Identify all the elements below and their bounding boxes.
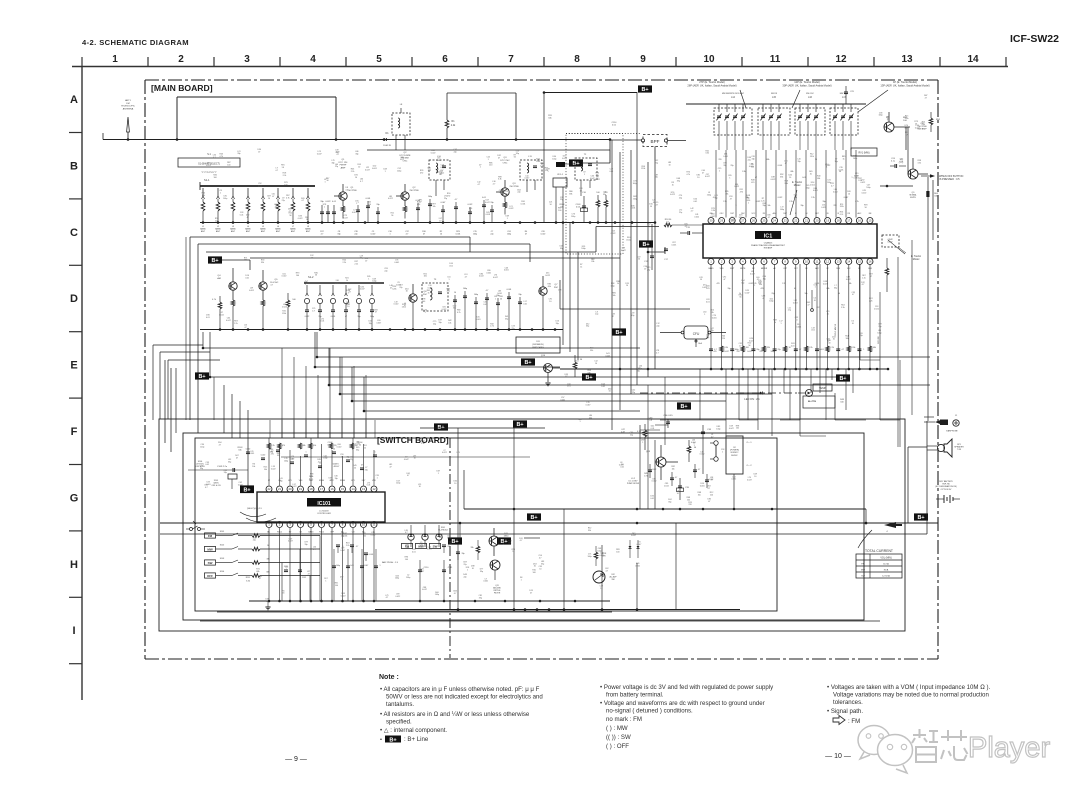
svg-text:22p: 22p: [632, 392, 635, 394]
svg-text:33p: 33p: [462, 553, 465, 555]
svg-text:2.2k: 2.2k: [342, 262, 346, 264]
svg-text:1: 1: [377, 477, 378, 479]
B+ box (left low): [240, 485, 254, 492]
wire antenna feed: [103, 139, 336, 141]
svg-text:0.047: 0.047: [422, 589, 427, 591]
svg-text:1: 1: [324, 206, 325, 208]
svg-text:1k: 1k: [306, 219, 308, 221]
svg-text:0.047: 0.047: [724, 351, 729, 353]
svg-text:22p: 22p: [354, 234, 357, 236]
svg-text:47: 47: [329, 480, 331, 482]
svg-text:47: 47: [656, 205, 658, 207]
svg-text:100p: 100p: [739, 217, 743, 219]
svg-text:68k: 68k: [767, 159, 770, 161]
svg-text:BAC PUSH : 1.5: BAC PUSH : 1.5: [382, 561, 399, 564]
svg-text:23: 23: [784, 219, 788, 223]
svg-text:4.7: 4.7: [356, 546, 359, 548]
svg-text:0.047: 0.047: [485, 202, 490, 204]
svg-text:10k: 10k: [238, 450, 241, 452]
transistor Q11: [489, 536, 499, 546]
misc top right caps: [844, 91, 848, 93]
svg-text:1: 1: [286, 569, 287, 571]
resistor pair R8 R9: [596, 200, 600, 207]
svg-text:MW: MW: [207, 547, 212, 551]
svg-text:15: 15: [858, 260, 862, 264]
svg-text:IN: IN: [805, 213, 807, 215]
svg-text:33p: 33p: [369, 323, 372, 325]
svg-text:0.001: 0.001: [839, 170, 844, 172]
resistor R15: [218, 302, 222, 309]
svg-text:0.022: 0.022: [327, 445, 333, 447]
svg-text:22p: 22p: [706, 337, 709, 339]
svg-text:• Voltages are taken with a VO: • Voltages are taken with a VOM ( Input …: [827, 684, 990, 691]
svg-text:T3: T3: [434, 279, 437, 281]
svg-text:2.2k: 2.2k: [809, 347, 812, 349]
svg-text:100: 100: [368, 204, 371, 206]
band select switches S101-S104: [205, 533, 216, 538]
svg-text:R111: R111: [246, 577, 251, 579]
svg-text:56: 56: [289, 215, 291, 217]
svg-text:10: 10: [580, 190, 582, 192]
svg-text:0.01: 0.01: [905, 127, 909, 129]
B+ box (sw top2): [513, 420, 527, 427]
svg-text:R52: R52: [936, 119, 941, 121]
svg-text:0.047: 0.047: [631, 535, 636, 537]
svg-text:L11: L11: [528, 156, 532, 158]
svg-text:FM/T: FM/T: [730, 268, 735, 270]
FM bus junction dots: [321, 221, 324, 224]
svg-text:1: 1: [112, 54, 118, 65]
svg-text:4.7: 4.7: [386, 597, 389, 599]
svg-text:0.047: 0.047: [705, 176, 710, 178]
svg-text:SW: SW: [611, 579, 614, 581]
svg-text:no mark : FM: no mark : FM: [606, 716, 642, 723]
svg-text:(( )) : SW: (( )) : SW: [606, 734, 631, 741]
MW osc coil T2: [575, 158, 597, 180]
svg-text:100: 100: [227, 164, 230, 166]
IC101 bottom pin wires: [268, 528, 270, 601]
svg-text:9: 9: [640, 54, 646, 65]
svg-text:1: 1: [704, 314, 705, 316]
svg-text:0.001: 0.001: [672, 244, 677, 246]
svg-text:4.7: 4.7: [465, 277, 468, 279]
resistor group above IC101: [267, 443, 271, 449]
electrolytic C39: [679, 478, 681, 500]
svg-text:33p: 33p: [762, 205, 765, 207]
svg-text:F: F: [71, 426, 78, 438]
svg-text:Q2: Q2: [404, 152, 408, 154]
svg-text:33p: 33p: [438, 322, 441, 324]
svg-text:0.001: 0.001: [507, 289, 512, 291]
svg-text:0.01: 0.01: [609, 171, 613, 173]
svg-text:47: 47: [365, 260, 367, 262]
svg-text:2.2k: 2.2k: [789, 201, 792, 203]
bus below switch board: [217, 611, 612, 613]
svg-text:0.001: 0.001: [635, 565, 640, 567]
svg-text:33p: 33p: [480, 571, 483, 573]
svg-text:100p: 100p: [370, 316, 374, 318]
svg-text:33p: 33p: [714, 198, 717, 200]
svg-text:7: 7: [774, 260, 776, 264]
svg-text:10: 10: [406, 291, 408, 293]
svg-text:33p: 33p: [797, 161, 800, 163]
svg-text:47: 47: [525, 234, 527, 236]
svg-text:100p: 100p: [866, 187, 870, 189]
svg-text:1: 1: [521, 579, 522, 581]
svg-text:B+: B+: [451, 539, 458, 545]
svg-text:2.2k: 2.2k: [830, 347, 833, 349]
svg-text:4.7: 4.7: [831, 186, 834, 188]
svg-text:3: 3: [244, 54, 250, 65]
svg-text:56: 56: [514, 157, 516, 159]
svg-text:33p: 33p: [637, 370, 640, 372]
svg-text:47: 47: [258, 152, 260, 154]
svg-text:4.7: 4.7: [486, 290, 489, 292]
svg-text:0.01: 0.01: [523, 304, 527, 306]
bus wire y534: [160, 533, 927, 535]
IC1 top pins: [708, 218, 714, 224]
svg-text:22p: 22p: [384, 270, 387, 272]
svg-text:0.047: 0.047: [317, 153, 322, 155]
svg-text:S.1: S.1: [207, 153, 211, 156]
wire fan tuning to IC1: [715, 150, 717, 218]
svg-text:2SC2786: 2SC2786: [347, 190, 357, 192]
svg-text:33p: 33p: [794, 197, 797, 199]
resistor R18: [664, 223, 672, 227]
svg-text:30P (AEP, UK, Italian, Saudi A: 30P (AEP, UK, Italian, Saudi Arabia Mode…: [782, 83, 831, 87]
svg-text:0.001: 0.001: [813, 190, 818, 192]
switch S1 label box: [178, 158, 240, 167]
svg-text:REF: REF: [836, 268, 840, 270]
svg-text:100p: 100p: [853, 158, 857, 160]
svg-text:0.1u: 0.1u: [891, 161, 895, 163]
svg-text:4.7: 4.7: [711, 437, 714, 439]
svg-text:• △ : internal component.: • △ : internal component.: [380, 727, 447, 734]
svg-text:33p: 33p: [631, 315, 634, 317]
svg-text:10k: 10k: [264, 469, 267, 471]
svg-text:21: 21: [278, 487, 282, 491]
svg-text:56: 56: [815, 159, 817, 161]
switch S1-1 contacts: [202, 188, 204, 196]
svg-text:XT: XT: [268, 480, 271, 482]
cap C110: [419, 560, 421, 601]
svg-text:0.022: 0.022: [771, 179, 776, 181]
svg-text:DET: DET: [815, 213, 819, 215]
dashed region (tourist model): [566, 134, 623, 255]
svg-text:MUTE: MUTE: [740, 268, 746, 270]
svg-text:AM: AM: [217, 277, 220, 280]
svg-text:11: 11: [770, 54, 781, 65]
IF coil L8 (dashed can): [392, 113, 410, 135]
svg-text:0.01: 0.01: [693, 201, 697, 203]
svg-text:BL-3HD254: BL-3HD254: [438, 529, 447, 531]
svg-text:0.022: 0.022: [887, 242, 893, 244]
svg-text:1k: 1k: [346, 280, 348, 282]
svg-text:L15: L15: [772, 97, 777, 99]
svg-text:0.01: 0.01: [350, 565, 354, 567]
earphone jack J1: [940, 420, 948, 426]
svg-text:33p: 33p: [479, 598, 482, 600]
svg-text:0.001: 0.001: [352, 212, 357, 214]
svg-text:0.022: 0.022: [282, 276, 287, 278]
svg-text:22p: 22p: [350, 459, 353, 461]
tuning gang bus: [686, 103, 866, 105]
svg-text:100p: 100p: [588, 556, 592, 558]
IF transformer box T3: [422, 283, 448, 311]
wire vertical x516: [515, 93, 517, 140]
svg-text:4.7k: 4.7k: [686, 174, 690, 176]
svg-text:1: 1: [780, 323, 781, 325]
svg-text:100p: 100p: [395, 578, 399, 580]
B+ box (B+ line): [914, 513, 928, 520]
svg-text:100: 100: [292, 299, 296, 301]
svg-text:13: 13: [837, 260, 841, 264]
svg-text:[MAIN BOARD]: [MAIN BOARD]: [151, 83, 213, 93]
svg-text:18: 18: [837, 219, 841, 223]
svg-text:22p: 22p: [253, 540, 256, 542]
svg-text:DRY BATTERY: DRY BATTERY: [939, 480, 953, 483]
svg-text:47: 47: [757, 279, 759, 281]
svg-text:1: 1: [579, 421, 580, 423]
svg-text:PUMP FILTER: PUMP FILTER: [627, 483, 640, 485]
IC IC1 body: [703, 224, 877, 258]
capacitor group C1-C3: [321, 205, 323, 223]
B+ box (AM conv): [208, 256, 222, 263]
cap left of IC1: [687, 231, 689, 235]
svg-text:1N60: 1N60: [504, 536, 510, 538]
svg-text:4.7k: 4.7k: [644, 476, 648, 478]
svg-text:4.7: 4.7: [539, 558, 542, 560]
svg-text:22p: 22p: [335, 152, 338, 154]
svg-text:47: 47: [870, 276, 872, 278]
svg-text:100p: 100p: [610, 286, 614, 288]
band switch verticals: [319, 536, 321, 602]
svg-text:33p: 33p: [860, 335, 863, 337]
svg-text:1: 1: [380, 565, 381, 567]
svg-text:2.2k: 2.2k: [354, 264, 358, 266]
svg-text:0.022: 0.022: [206, 165, 211, 167]
svg-text:5: 5: [376, 54, 382, 65]
svg-text:10k: 10k: [934, 196, 937, 198]
bottom bus y609: [375, 609, 740, 611]
transistor Q9 det: [908, 169, 918, 179]
svg-text:SW: SW: [208, 561, 213, 565]
svg-text:0.047: 0.047: [590, 178, 595, 180]
svg-text:10k: 10k: [252, 466, 255, 468]
svg-text:specified.: specified.: [386, 719, 412, 726]
svg-text:47: 47: [852, 294, 854, 296]
svg-text:100: 100: [533, 572, 536, 574]
bus wire y309: [560, 308, 690, 310]
svg-text:0.01: 0.01: [412, 552, 416, 554]
svg-text:BAND: BAND: [200, 228, 206, 231]
svg-text:470: 470: [417, 204, 420, 206]
svg-text:1: 1: [719, 170, 720, 172]
svg-text:68k: 68k: [256, 571, 259, 573]
svg-text:33p: 33p: [320, 201, 324, 203]
svg-text:[SWITCH BOARD]: [SWITCH BOARD]: [377, 435, 449, 445]
svg-text:47: 47: [530, 593, 532, 595]
B+ box (right mid): [836, 374, 850, 381]
svg-text:0.047: 0.047: [586, 404, 591, 406]
svg-text:33p: 33p: [355, 153, 358, 155]
svg-text:0.022: 0.022: [731, 479, 736, 481]
svg-text:10k: 10k: [505, 193, 508, 195]
svg-text:Q1: Q1: [351, 187, 355, 189]
svg-text:22p: 22p: [647, 269, 650, 271]
svg-text:0.001: 0.001: [486, 272, 491, 274]
svg-text:FM: FM: [126, 103, 129, 105]
svg-text:470: 470: [761, 288, 764, 290]
svg-text:BAND: BAND: [245, 228, 251, 231]
svg-text:0.022: 0.022: [749, 340, 754, 342]
boxed label TEMP: [813, 384, 832, 391]
svg-text:6: 6: [442, 54, 448, 65]
svg-text:3.3k: 3.3k: [421, 443, 425, 445]
svg-text:120k: 120k: [641, 168, 645, 170]
svg-text:56: 56: [282, 593, 284, 595]
switch S2 contacts: [714, 441, 718, 445]
svg-text:EARPHONE: EARPHONE: [946, 430, 958, 433]
svg-text:1: 1: [642, 442, 643, 444]
resistor col right IC1: [885, 268, 889, 275]
svg-text:4.7: 4.7: [301, 200, 304, 202]
svg-text:7.2Ω: 7.2Ω: [957, 449, 962, 451]
svg-text:470: 470: [420, 172, 423, 174]
svg-text:0.022: 0.022: [337, 446, 342, 448]
svg-text:0.022: 0.022: [702, 287, 707, 289]
svg-text:B+: B+: [585, 375, 592, 381]
svg-text:0.001: 0.001: [331, 316, 336, 318]
svg-text:O—1: O—1: [746, 442, 752, 444]
capacitor group above IC101: [246, 451, 250, 453]
horizontal connectors right half: [660, 419, 700, 421]
svg-text:CXA8013: CXA8013: [764, 242, 773, 245]
svg-text:OPTION 3V: OPTION 3V: [941, 489, 952, 491]
svg-text:— 9 —: — 9 —: [285, 756, 307, 763]
cap C111: [443, 560, 445, 601]
resistor R16: [286, 300, 290, 307]
leader line 1P: [858, 90, 888, 112]
svg-text:0.001: 0.001: [335, 283, 340, 285]
svg-text:100: 100: [284, 185, 287, 187]
svg-text:33k: 33k: [711, 312, 714, 314]
transistor Q7 IF: [539, 287, 547, 295]
svg-text:R1: R1: [451, 120, 455, 123]
resistor R118: [594, 552, 598, 559]
svg-text:1: 1: [438, 473, 439, 475]
svg-text:1k: 1k: [774, 322, 776, 324]
svg-text:0.047: 0.047: [729, 428, 734, 430]
svg-text:100p: 100p: [223, 198, 227, 200]
open terminal: [811, 309, 814, 312]
svg-text:220: 220: [215, 220, 218, 222]
svg-text:1: 1: [503, 544, 504, 546]
svg-text:56: 56: [580, 359, 583, 361]
svg-text:14: 14: [847, 260, 851, 264]
signal path arrow: [833, 716, 845, 725]
svg-text:22p: 22p: [758, 282, 761, 284]
svg-text:2: 2: [178, 54, 184, 65]
svg-text:68k: 68k: [548, 286, 551, 288]
svg-text:1k: 1k: [267, 545, 269, 547]
wire right column top: [927, 177, 929, 421]
svg-text:HOLD: HOLD: [319, 532, 325, 534]
svg-text:3.3k: 3.3k: [841, 307, 845, 309]
svg-text:47: 47: [708, 501, 710, 503]
svg-text:4.7: 4.7: [691, 210, 694, 212]
svg-text:10: 10: [355, 177, 357, 179]
svg-text:B+: B+: [642, 242, 649, 248]
svg-text:1k: 1k: [512, 551, 514, 553]
svg-text:220: 220: [710, 494, 713, 496]
svg-text:100p: 100p: [323, 458, 327, 460]
bus below switch board2: [200, 620, 880, 622]
svg-text:1: 1: [729, 177, 730, 179]
svg-text:C39: C39: [685, 487, 690, 489]
svg-text:1: 1: [863, 349, 864, 351]
svg-text:3.3k: 3.3k: [246, 581, 250, 583]
svg-text:0.01: 0.01: [332, 201, 337, 203]
svg-text:33p: 33p: [586, 326, 589, 328]
svg-text:ANT1: ANT1: [125, 99, 131, 102]
svg-text:B+: B+: [524, 360, 531, 366]
svg-text:10: 10: [268, 198, 270, 200]
svg-text:FM: FM: [861, 564, 864, 566]
svg-text:0.022: 0.022: [756, 201, 761, 203]
wire AM conv feed: [222, 259, 250, 261]
svg-text:22p: 22p: [649, 420, 652, 422]
svg-text:0.047: 0.047: [637, 544, 642, 546]
svg-text:10: 10: [848, 193, 850, 195]
B+ box (S11): [521, 358, 535, 365]
svg-text:100p: 100p: [428, 196, 432, 198]
notes B+ line item: [385, 736, 401, 743]
svg-text:1: 1: [325, 581, 326, 583]
svg-text:33p: 33p: [304, 544, 307, 546]
svg-text:SLA: SLA: [698, 342, 702, 345]
svg-text:4.7: 4.7: [321, 234, 324, 236]
svg-text:22p: 22p: [656, 326, 659, 328]
svg-text:: B+ Line: : B+ Line: [404, 736, 429, 743]
transistor Q2 FM MIX: [401, 192, 409, 200]
svg-text:0.01: 0.01: [900, 161, 904, 163]
svg-text:0.022: 0.022: [442, 309, 447, 311]
svg-text:56: 56: [694, 447, 697, 449]
svg-text:4.7: 4.7: [698, 469, 701, 471]
svg-text:: FM: : FM: [848, 718, 860, 725]
svg-text:0.022: 0.022: [371, 535, 376, 537]
svg-text:S102: S102: [220, 545, 224, 547]
svg-text:33k: 33k: [591, 261, 594, 263]
IC1 name plate: [755, 231, 781, 239]
svg-text:3.3k: 3.3k: [711, 210, 715, 212]
wire main top feed: [336, 139, 610, 141]
svg-text:0.01: 0.01: [400, 159, 404, 161]
svg-text:B: B: [70, 160, 78, 172]
svg-text:33k: 33k: [725, 193, 728, 195]
IC1 area ground bus: [560, 368, 888, 370]
svg-text:10k: 10k: [672, 468, 675, 470]
svg-text:0.001: 0.001: [343, 535, 348, 537]
svg-text:1: 1: [467, 569, 468, 571]
svg-text:0.022: 0.022: [874, 308, 879, 310]
svg-text:22p: 22p: [282, 200, 285, 202]
svg-text:8: 8: [574, 54, 580, 65]
svg-text:VOL (MIN): VOL (MIN): [880, 557, 892, 560]
boxed label right of IC1: [882, 235, 899, 247]
svg-text:0.022: 0.022: [394, 304, 399, 306]
